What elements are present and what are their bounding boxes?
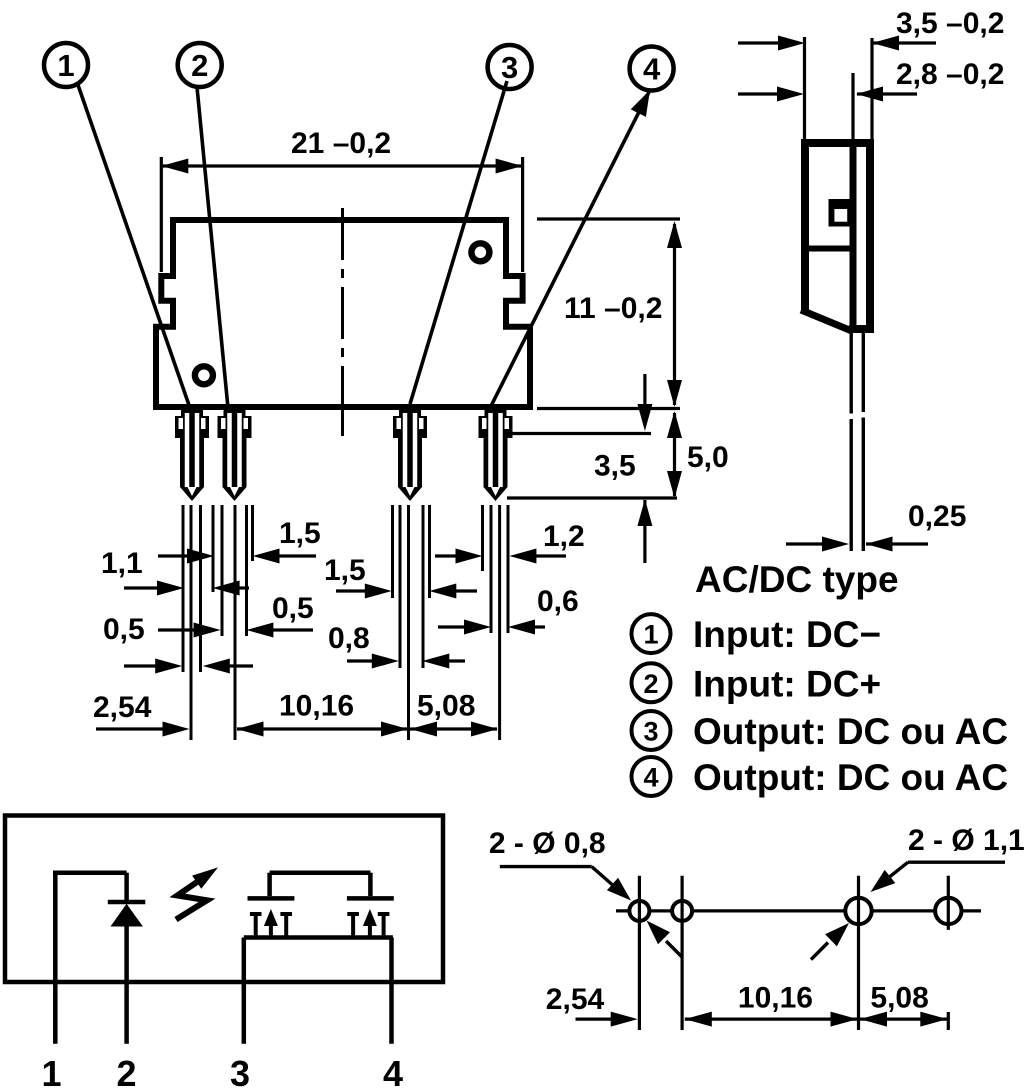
svg-text:Input: DC−: Input: DC− bbox=[693, 614, 881, 655]
svg-text:3,5: 3,5 bbox=[594, 450, 636, 483]
svg-text:21 –0,2: 21 –0,2 bbox=[291, 127, 391, 160]
svg-text:AC/DC type: AC/DC type bbox=[695, 559, 899, 600]
svg-text:2: 2 bbox=[643, 669, 658, 699]
svg-text:4: 4 bbox=[383, 1053, 403, 1090]
svg-text:Input: DC+: Input: DC+ bbox=[693, 663, 881, 704]
svg-text:0,8: 0,8 bbox=[328, 622, 370, 655]
svg-text:1,5: 1,5 bbox=[324, 554, 366, 587]
svg-text:10,16: 10,16 bbox=[738, 982, 813, 1015]
svg-text:Output: DC ou AC: Output: DC ou AC bbox=[693, 711, 1008, 752]
svg-text:2 - Ø 1,1: 2 - Ø 1,1 bbox=[908, 824, 1024, 857]
svg-text:1,5: 1,5 bbox=[279, 517, 321, 550]
svg-text:0,5: 0,5 bbox=[103, 613, 145, 646]
svg-text:1,1: 1,1 bbox=[101, 547, 143, 580]
svg-text:5,08: 5,08 bbox=[870, 982, 928, 1015]
svg-text:4: 4 bbox=[643, 52, 661, 87]
svg-text:2,54: 2,54 bbox=[93, 691, 152, 724]
svg-text:0,6: 0,6 bbox=[537, 585, 579, 618]
svg-text:1,2: 1,2 bbox=[543, 520, 585, 553]
svg-text:0,25: 0,25 bbox=[908, 500, 966, 533]
svg-text:2,8 –0,2: 2,8 –0,2 bbox=[896, 58, 1004, 91]
svg-text:11 –0,2: 11 –0,2 bbox=[564, 292, 662, 325]
svg-text:2: 2 bbox=[116, 1053, 136, 1090]
svg-text:2,54: 2,54 bbox=[546, 983, 605, 1016]
svg-text:3,5 –0,2: 3,5 –0,2 bbox=[896, 7, 1004, 40]
svg-text:10,16: 10,16 bbox=[279, 690, 354, 723]
svg-text:0,5: 0,5 bbox=[272, 592, 314, 625]
svg-text:1: 1 bbox=[57, 48, 74, 83]
svg-text:1: 1 bbox=[643, 620, 658, 650]
svg-text:2: 2 bbox=[191, 48, 208, 83]
svg-text:5,08: 5,08 bbox=[417, 690, 475, 723]
svg-text:3: 3 bbox=[230, 1053, 250, 1090]
svg-text:5,0: 5,0 bbox=[687, 441, 729, 474]
svg-text:3: 3 bbox=[501, 50, 518, 85]
svg-text:4: 4 bbox=[643, 763, 658, 793]
svg-text:2 - Ø 0,8: 2 - Ø 0,8 bbox=[489, 827, 606, 860]
svg-text:1: 1 bbox=[41, 1053, 61, 1090]
svg-text:3: 3 bbox=[643, 717, 658, 747]
svg-text:Output: DC ou AC: Output: DC ou AC bbox=[693, 757, 1008, 798]
